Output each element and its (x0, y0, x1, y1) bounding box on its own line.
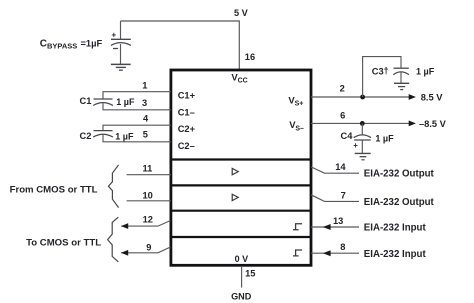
wire junction to C3 (363, 57, 401, 97)
wire pin 11 (127, 174, 171, 176)
svg-text:To CMOS or TTL: To CMOS or TTL (26, 237, 101, 248)
capacitor C4 (353, 135, 371, 150)
arrowhead pin 13 (323, 224, 331, 230)
svg-text:5: 5 (143, 130, 148, 140)
svg-text:10: 10 (143, 191, 153, 201)
arrowhead pin 9 (121, 250, 128, 256)
receiver hysteresis symbol 2 (293, 250, 302, 256)
svg-text:6: 6 (340, 111, 345, 121)
pin name VS- (289, 120, 304, 132)
capacitor C2 (93, 131, 113, 138)
svg-text:BYPASS: BYPASS (47, 41, 77, 50)
IC divider line A (171, 158, 311, 160)
wire C4 to ground (361, 140, 363, 153)
svg-text:11: 11 (143, 164, 153, 174)
svg-text:12: 12 (143, 214, 153, 224)
svg-text:1: 1 (142, 80, 147, 90)
receiver hysteresis symbol 1 (293, 224, 302, 230)
svg-text:8: 8 (340, 242, 345, 252)
wire pin 14 with diagonal (311, 167, 359, 173)
arrowhead pin 12 (121, 223, 128, 229)
svg-text:EIA-232 Input: EIA-232 Input (364, 249, 427, 260)
svg-text:1 µF: 1 µF (116, 97, 135, 107)
svg-text:=1µF: =1µF (81, 38, 103, 48)
svg-text:From CMOS or TTL: From CMOS or TTL (10, 184, 98, 195)
svg-text:8.5 V: 8.5 V (421, 93, 444, 103)
wire pin 15 to GND (241, 267, 243, 288)
op-amp U1 IC body (171, 70, 311, 265)
svg-text:C4: C4 (341, 131, 354, 141)
svg-text:+: + (112, 31, 117, 40)
wire pin 8 (311, 252, 359, 254)
wire pin 2 to 8.5 V (311, 96, 411, 98)
wire pin 13 (311, 226, 359, 228)
svg-text:7: 7 (341, 191, 346, 201)
svg-text:C: C (40, 39, 47, 50)
wire junction to C4 (361, 123, 363, 135)
svg-text:S+: S+ (295, 101, 304, 108)
ground (C3) (394, 83, 409, 89)
svg-text:0 V: 0 V (235, 254, 249, 264)
IC divider line B (171, 184, 311, 186)
capacitor CBYPASS (111, 31, 131, 49)
capacitor C1 (93, 99, 113, 106)
wire pin 12 with diagonal (121, 221, 170, 227)
svg-text:15: 15 (245, 268, 255, 278)
ground (C4) (355, 153, 371, 159)
brace To CMOS or TTL (108, 217, 119, 262)
svg-text:4: 4 (143, 114, 149, 124)
capacitor C3 (393, 68, 409, 74)
svg-text:C2+: C2+ (178, 124, 196, 134)
IC divider line C (171, 210, 311, 212)
wire 5V rail to pin 16 (121, 21, 240, 69)
svg-text:GND: GND (231, 292, 252, 302)
svg-text:EIA-232 Output: EIA-232 Output (364, 169, 435, 180)
junction node pin 6 (360, 121, 365, 126)
wire pin 6 to -8.5 V (311, 122, 411, 124)
wire C3 to ground (400, 72, 402, 83)
arrowhead -8.5 V (409, 121, 416, 127)
svg-text:C2–: C2– (178, 141, 195, 151)
brace From CMOS or TTL (108, 165, 118, 208)
wire pin 9 with diagonal (121, 247, 170, 253)
arrowhead 8.5 V (409, 94, 416, 100)
svg-text:C3: C3 (372, 66, 384, 76)
svg-text:CC: CC (238, 77, 248, 84)
pin name VS+ (288, 95, 303, 107)
arrowhead pin 8 (323, 250, 331, 256)
wire pin 1 (103, 92, 171, 99)
svg-text:C2: C2 (80, 131, 92, 141)
svg-text:1 µF: 1 µF (375, 134, 394, 144)
junction node pin 2 (360, 95, 365, 100)
svg-text:S–: S– (295, 125, 304, 132)
IC divider line D (171, 236, 311, 238)
wire pin 5 (103, 135, 171, 142)
svg-text:2: 2 (340, 84, 345, 94)
svg-text:16: 16 (245, 52, 255, 62)
svg-text:9: 9 (146, 242, 151, 252)
svg-text:C1–: C1– (178, 107, 195, 117)
svg-text:1 µF: 1 µF (416, 67, 435, 77)
svg-text:14: 14 (335, 162, 346, 172)
VCC pin name (231, 72, 247, 84)
svg-text:EIA-232 Output: EIA-232 Output (364, 197, 435, 208)
CBYPASS value label (40, 38, 103, 50)
svg-text:EIA-232 Input: EIA-232 Input (364, 223, 427, 234)
wire pin 3 (103, 103, 171, 110)
svg-text:C1: C1 (80, 96, 92, 106)
wire CBYPASS to ground (120, 44, 122, 64)
C3 reference label with dagger (372, 66, 389, 77)
wire pin 7 with diagonal (311, 195, 359, 202)
svg-text:13: 13 (333, 216, 343, 226)
svg-text:3: 3 (142, 98, 147, 108)
svg-text:†: † (384, 66, 389, 76)
svg-text:–8.5 V: –8.5 V (419, 119, 447, 129)
ground (CBYPASS) (111, 64, 131, 70)
svg-text:C1+: C1+ (178, 91, 196, 101)
svg-text:+: + (353, 141, 358, 150)
driver buffer 2 (232, 194, 238, 200)
driver buffer 1 (232, 168, 238, 174)
wire pin 10 (127, 200, 171, 202)
wire pin 4 (103, 125, 171, 130)
svg-text:1 µF: 1 µF (115, 132, 134, 142)
wire CBYPASS top stub (120, 21, 122, 39)
svg-text:5 V: 5 V (234, 8, 249, 18)
